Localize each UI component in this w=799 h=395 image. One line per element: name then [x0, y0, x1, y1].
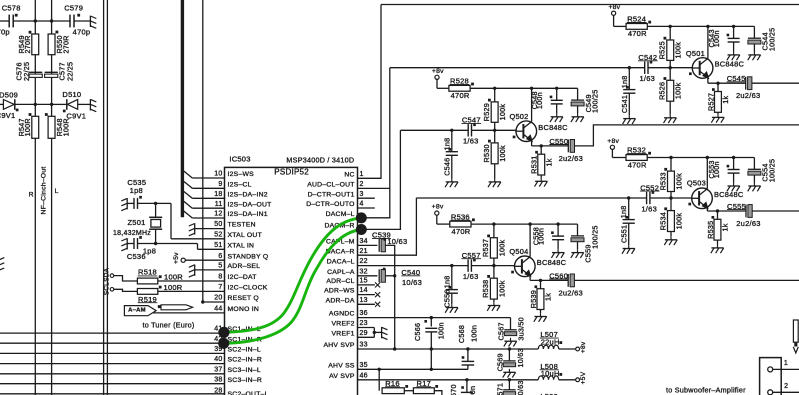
svg-text:SC2–OUT–L: SC2–OUT–L — [228, 391, 269, 395]
pin 11 I2S–DA–OUT — [215, 201, 272, 209]
svg-text:I2S–CL: I2S–CL — [228, 181, 252, 188]
ground — [711, 114, 724, 123]
capacitor C559 — [571, 224, 600, 262]
wire — [493, 224, 495, 238]
wire — [35, 103, 51, 105]
node — [732, 156, 735, 159]
pin 29 VREF1 — [332, 330, 368, 338]
wire pin 44 MONO IN — [153, 312, 225, 314]
pin 23 VREF2 — [332, 320, 368, 328]
ground — [90, 16, 96, 29]
wire — [74, 20, 90, 22]
node — [430, 368, 433, 371]
ground — [664, 236, 677, 245]
svg-text:I2S–DA–OUT: I2S–DA–OUT — [228, 201, 272, 208]
diode D509 — [0, 90, 18, 120]
svg-text:C551: C551 — [620, 225, 629, 243]
svg-text:14: 14 — [360, 287, 368, 294]
svg-text:32: 32 — [360, 268, 368, 275]
svg-text:52: 52 — [214, 231, 222, 238]
capacitor C550 — [549, 137, 583, 163]
transistor Q504 — [514, 224, 535, 280]
wire — [35, 20, 51, 22]
svg-text:100n: 100n — [468, 386, 477, 395]
svg-text:C570: C570 — [449, 384, 458, 395]
svg-text:L: L — [55, 188, 59, 195]
svg-text:100n: 100n — [535, 92, 544, 109]
wire pin 34 CAPL-M — [358, 244, 378, 246]
svg-text:35: 35 — [360, 362, 368, 369]
pin 14 ADR–WS — [324, 287, 368, 295]
svg-text:C9V1: C9V1 — [0, 111, 15, 120]
connector to subwoofer — [760, 358, 782, 395]
svg-text:C556: C556 — [443, 289, 452, 307]
svg-text:BC848C: BC848C — [715, 60, 745, 69]
ground — [487, 302, 500, 311]
node — [556, 222, 559, 225]
svg-text:10: 10 — [214, 171, 222, 178]
svg-text:2u2/63: 2u2/63 — [559, 154, 583, 163]
svg-text:SC3–IN–R: SC3–IN–R — [228, 377, 263, 384]
svg-text:100k: 100k — [674, 213, 683, 230]
node RESET — [201, 300, 204, 303]
wire pin 6 — [185, 259, 224, 261]
svg-text:AHV SVP: AHV SVP — [323, 342, 354, 349]
svg-text:SC2–IN–R: SC2–IN–R — [228, 357, 263, 364]
wire VREF bracket — [358, 328, 382, 338]
capacitor C570 — [449, 378, 477, 395]
svg-text:C546: C546 — [443, 158, 452, 176]
capacitor C546 — [442, 130, 458, 178]
svg-text:R529: R529 — [482, 103, 491, 121]
svg-text:R534: R534 — [658, 212, 667, 230]
capacitor C535 — [127, 178, 146, 209]
svg-text:DACM–L: DACM–L — [326, 211, 355, 218]
node — [154, 242, 157, 245]
node DACM-R highlighted — [356, 224, 367, 235]
svg-text:100/25: 100/25 — [591, 225, 600, 248]
capacitor C536 — [127, 236, 156, 261]
wire — [0, 20, 9, 22]
svg-text:STANDBY Q: STANDBY Q — [228, 253, 269, 260]
capacitor C545 — [727, 74, 761, 100]
capacitor C568 — [457, 325, 478, 369]
svg-text:SCL: SCL — [103, 282, 110, 295]
svg-text:SDA: SDA — [103, 267, 110, 281]
svg-text:CAPL–A: CAPL–A — [327, 269, 355, 276]
inductor L508 — [538, 362, 587, 384]
node — [627, 196, 630, 199]
wire pin 3 — [358, 197, 375, 199]
resistor R530 — [491, 143, 498, 164]
wire pin 35 AHV SS line — [358, 368, 468, 370]
capacitor C555 — [727, 202, 761, 228]
node — [539, 279, 542, 282]
svg-text:46: 46 — [360, 372, 368, 379]
svg-text:R538: R538 — [481, 280, 490, 298]
ground — [727, 52, 740, 61]
capacitor C543 — [707, 26, 740, 51]
wire — [78, 103, 91, 105]
resistor R550 — [48, 34, 55, 55]
wire pin 2 — [358, 187, 390, 189]
capacitor C571 — [496, 378, 526, 395]
pin 10 I2S–WS — [214, 171, 254, 179]
svg-text:470R: 470R — [451, 91, 470, 100]
node — [450, 129, 453, 132]
wire input — [390, 67, 645, 69]
svg-text:44: 44 — [214, 306, 222, 313]
svg-text:12: 12 — [214, 211, 222, 218]
transistor Q501 — [692, 26, 713, 83]
svg-text:R539: R539 — [529, 290, 538, 308]
svg-text:51: 51 — [214, 242, 222, 249]
wire — [494, 130, 496, 143]
wire SC input lines — [0, 333, 225, 394]
svg-text:1k: 1k — [544, 158, 553, 166]
pin 37 SC3–IN–L — [214, 366, 261, 374]
svg-text:+8v: +8v — [608, 4, 620, 11]
node — [493, 87, 496, 90]
pin 34 CAPL–M — [326, 238, 368, 246]
node — [669, 196, 672, 199]
wire base — [495, 129, 524, 131]
svg-text:D–CTR–OUT1: D–CTR–OUT1 — [308, 191, 355, 198]
terminal +5v — [173, 252, 185, 264]
svg-text:1k: 1k — [544, 293, 553, 301]
pin 39 SC2–IN–L — [214, 346, 261, 354]
wire AHV SS to R16 — [378, 368, 381, 391]
svg-text:NC: NC — [344, 171, 354, 178]
svg-text:270R: 270R — [61, 35, 70, 53]
wire — [493, 258, 495, 266]
svg-text:D–CTR–OUTO: D–CTR–OUTO — [306, 201, 354, 208]
wire highlight DACM-L to SC1-IN-L — [224, 218, 361, 333]
wire pin 1 NC riser — [358, 5, 382, 179]
wire rail — [437, 223, 450, 225]
pin 2 — [773, 383, 799, 392]
svg-text:100n: 100n — [469, 325, 478, 342]
svg-text:100n: 100n — [437, 322, 446, 339]
pin 1 NC — [344, 171, 363, 179]
ground — [664, 114, 677, 123]
capacitor C560 — [549, 271, 583, 297]
pin 15 ADR–CL — [326, 278, 367, 286]
svg-text:C568: C568 — [457, 325, 466, 343]
svg-text:270R: 270R — [23, 35, 32, 53]
svg-text:34: 34 — [360, 238, 368, 245]
wire — [13, 20, 35, 22]
svg-text:13: 13 — [360, 297, 368, 304]
svg-text:C569: C569 — [496, 353, 505, 371]
svg-text:R525: R525 — [658, 41, 667, 59]
ground VREF — [382, 327, 388, 340]
pin 21 DACA–R — [326, 248, 368, 256]
resistor R548 — [48, 116, 55, 138]
svg-text:100k: 100k — [497, 280, 506, 297]
svg-text:100R: 100R — [61, 118, 70, 136]
svg-text:100k: 100k — [498, 145, 507, 162]
ground — [121, 198, 127, 211]
svg-text:100n: 100n — [537, 228, 546, 245]
svg-text:I2S–DA–IN2: I2S–DA–IN2 — [228, 191, 268, 198]
wire input — [416, 197, 646, 199]
wire rail — [614, 25, 627, 27]
svg-text:+5v: +5v — [173, 252, 180, 264]
node SC1-IN-L highlighted — [218, 327, 229, 338]
node — [492, 264, 495, 267]
wire NF-Cinch-Out L rail — [51, 0, 53, 395]
svg-text:100k: 100k — [674, 173, 683, 190]
svg-text:Q502: Q502 — [509, 112, 528, 121]
capacitor C548 — [530, 88, 563, 113]
wire — [385, 245, 395, 275]
svg-text:470R: 470R — [628, 29, 647, 38]
pin 32 CAPL–A — [327, 268, 368, 276]
wire — [670, 198, 672, 211]
svg-text:ADR–SEL: ADR–SEL — [228, 263, 261, 270]
wire pin 22 DACA-L to Q504 — [358, 265, 452, 267]
svg-text:22: 22 — [360, 258, 368, 265]
svg-text:+8v: +8v — [607, 138, 619, 145]
wire — [669, 60, 671, 67]
wire — [127, 243, 134, 245]
wire rail — [647, 25, 754, 27]
svg-text:18: 18 — [214, 191, 222, 198]
node — [50, 19, 53, 22]
wire pin 46 AV SVP line — [358, 379, 539, 381]
resistor R538 — [490, 278, 497, 299]
capacitor C579 — [64, 3, 90, 36]
pin 1 — [773, 360, 799, 369]
svg-text:21: 21 — [360, 248, 368, 255]
svg-text:R533: R533 — [658, 172, 667, 190]
svg-text:VREF1: VREF1 — [332, 330, 355, 337]
svg-text:20: 20 — [214, 295, 222, 302]
terminal +8v Q501 — [608, 4, 620, 27]
svg-text:+8v: +8v — [580, 341, 587, 353]
terminal +8v Q504 — [432, 204, 444, 224]
transistor Q502 — [515, 88, 536, 146]
svg-text:37: 37 — [214, 366, 222, 373]
capacitor C539 — [372, 231, 407, 252]
resistor R527 — [707, 83, 731, 114]
signal pointer — [158, 305, 193, 310]
svg-text:1/63: 1/63 — [463, 137, 479, 146]
wire DACM-L to Q501 — [358, 68, 390, 218]
capacitor C578 — [0, 3, 21, 36]
svg-text:470p: 470p — [73, 28, 91, 37]
svg-text:3: 3 — [360, 191, 364, 198]
wire highlight DACM-R to SC1-IN-R — [224, 230, 362, 344]
terminal SDA — [103, 267, 113, 281]
ground stub at left edge — [0, 258, 4, 271]
wire DACM-R to Q502 — [358, 130, 401, 229]
node — [393, 274, 396, 277]
wire base — [670, 67, 700, 69]
capacitor C576 — [15, 62, 43, 81]
svg-text:C536: C536 — [127, 252, 146, 261]
svg-text:TESTEN: TESTEN — [228, 222, 256, 229]
svg-text:AV SVP: AV SVP — [329, 373, 355, 380]
off-page ADR-SEL — [189, 265, 195, 278]
pin 18 I2S–DA–IN2 — [214, 191, 268, 199]
node — [50, 103, 53, 106]
label Q502 — [509, 112, 568, 132]
svg-text:100n: 100n — [712, 161, 721, 178]
ground — [571, 249, 584, 258]
node — [628, 66, 631, 69]
svg-text:2: 2 — [784, 383, 788, 390]
terminal +8v Q502 — [432, 68, 444, 88]
svg-text:BC848C: BC848C — [538, 123, 568, 132]
pin 12 I2S–DA–IN1 — [214, 211, 268, 219]
svg-text:ADR–CL: ADR–CL — [326, 278, 354, 285]
wire emitter — [532, 145, 569, 147]
pin 42 SC1–IN–R — [214, 336, 262, 344]
wire pin 4 — [358, 207, 375, 209]
svg-text:MONO IN: MONO IN — [228, 306, 260, 313]
node collector — [706, 25, 709, 28]
svg-text:470R: 470R — [628, 160, 647, 169]
svg-text:AGNDC: AGNDC — [329, 311, 355, 318]
node — [492, 222, 495, 225]
svg-text:C579: C579 — [64, 3, 83, 12]
wire input — [452, 265, 468, 267]
wire emitter — [708, 82, 746, 84]
svg-text:7: 7 — [218, 284, 222, 291]
node — [732, 25, 735, 28]
svg-text:33: 33 — [360, 342, 368, 349]
capacitor C558 — [531, 224, 564, 249]
label Q504 — [509, 247, 566, 267]
pin 2 AUD–CL–OUT — [307, 181, 363, 189]
pin 35 AHV SS — [328, 362, 368, 370]
svg-text:+8v: +8v — [432, 204, 444, 211]
svg-text:1: 1 — [360, 171, 364, 178]
terminal SCL — [103, 282, 113, 295]
pin 8 I2C–DAT — [218, 274, 256, 282]
node — [555, 87, 558, 90]
svg-text:38: 38 — [214, 376, 222, 383]
svg-text:4: 4 — [360, 201, 364, 208]
inductor L507 — [538, 330, 587, 353]
svg-text:10/63: 10/63 — [516, 380, 525, 395]
svg-text:100n: 100n — [712, 30, 721, 47]
wire emitter — [707, 210, 746, 212]
svg-text:to Tuner (Euro): to Tuner (Euro) — [142, 321, 194, 330]
svg-text:D509: D509 — [0, 90, 18, 99]
no-connect pins 15 14 13 — [358, 282, 381, 307]
wire — [494, 88, 496, 102]
pin 40 SC2–IN–R — [214, 356, 262, 364]
node — [154, 202, 157, 205]
svg-text:Q501: Q501 — [686, 49, 705, 58]
svg-text:Q503: Q503 — [687, 179, 706, 188]
svg-text:+8v: +8v — [432, 68, 444, 75]
pin 51 XTAL IN — [214, 242, 254, 250]
svg-text:10/63: 10/63 — [402, 278, 422, 287]
node — [34, 19, 37, 22]
svg-text:2u2/63: 2u2/63 — [736, 219, 760, 228]
resistor R529 — [491, 102, 498, 122]
capacitor C556 — [442, 266, 458, 308]
svg-text:1: 1 — [784, 360, 788, 367]
wire — [394, 276, 396, 349]
resistor R547 — [32, 116, 39, 138]
svg-text:R527: R527 — [707, 93, 716, 111]
pin 5 ADR–SEL — [218, 263, 260, 271]
ground — [711, 245, 724, 254]
wire pin 32 CAPL-A — [358, 275, 378, 277]
node — [669, 66, 672, 69]
wire rail — [471, 223, 578, 225]
wire pin 5 — [195, 269, 225, 271]
svg-text:BC848C: BC848C — [714, 190, 744, 199]
wire pin 21 DACA-R to Q503 — [358, 198, 417, 255]
ground — [535, 178, 548, 187]
wire output — [574, 125, 799, 146]
svg-text:MSP3400D / 3410D: MSP3400D / 3410D — [286, 155, 354, 164]
wire — [103, 0, 105, 395]
svg-text:AHV SS: AHV SS — [328, 362, 355, 369]
node collector — [706, 156, 709, 159]
wire pin 20 — [203, 301, 225, 303]
bus I2S — [181, 0, 184, 217]
svg-text:15: 15 — [360, 278, 368, 285]
wire rail — [612, 157, 626, 159]
svg-text:22/25: 22/25 — [22, 62, 31, 81]
node — [540, 144, 543, 147]
pin 50 TESTEN — [214, 221, 256, 229]
pin 38 SC3–IN–R — [214, 376, 262, 384]
svg-text:R: R — [29, 192, 34, 199]
resistor R518 — [137, 278, 157, 284]
resistor R537 — [490, 238, 497, 258]
capacitor C553 — [707, 158, 740, 183]
node — [34, 103, 37, 106]
node collector — [528, 222, 531, 225]
svg-text:9: 9 — [218, 181, 222, 188]
svg-text:R518: R518 — [138, 268, 157, 277]
svg-text:1/63: 1/63 — [641, 204, 657, 213]
ground — [550, 113, 563, 122]
svg-text:2u2/63: 2u2/63 — [558, 288, 582, 297]
capacitor C540 — [379, 268, 422, 287]
node — [493, 129, 496, 132]
svg-text:C578: C578 — [2, 3, 21, 12]
svg-text:100k: 100k — [497, 239, 506, 256]
label Q501 — [686, 49, 745, 69]
wire — [106, 0, 108, 395]
pin DACM DACM–R — [324, 223, 354, 230]
node DACM-L highlighted — [356, 212, 367, 223]
svg-text:AUD–CL–OUT: AUD–CL–OUT — [307, 182, 354, 189]
node — [450, 264, 453, 267]
signal flag A-AM — [124, 306, 156, 316]
svg-text:A–AM: A–AM — [128, 308, 146, 314]
resistor R531 — [530, 146, 554, 178]
pin 3 D–CTR–OUT1 — [308, 191, 364, 199]
wire output — [574, 279, 799, 281]
pin 22 DACA–L — [327, 258, 368, 266]
svg-text:10/63: 10/63 — [516, 348, 525, 367]
svg-text:Z501: Z501 — [127, 218, 145, 227]
svg-text:1k: 1k — [721, 95, 730, 103]
svg-text:29: 29 — [360, 330, 368, 337]
capacitor C551 — [619, 198, 635, 245]
pin 44 MONO IN — [214, 306, 259, 314]
